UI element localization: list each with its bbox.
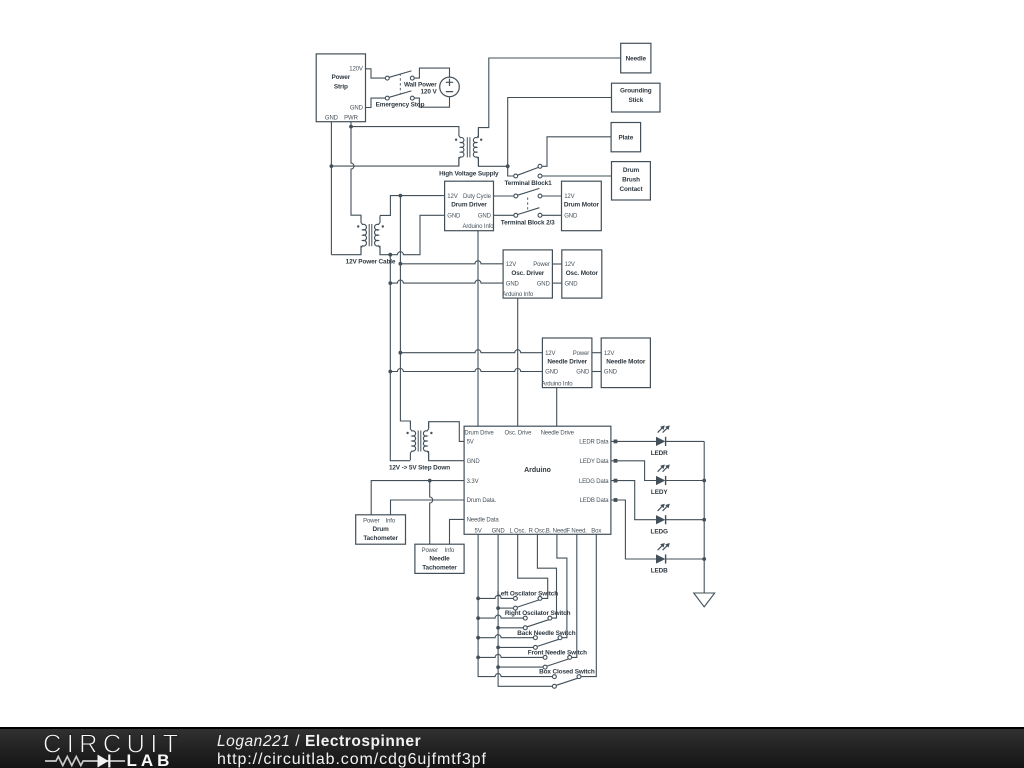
- ground symbol: [694, 593, 715, 607]
- wire 5V stub row2: [478, 615, 523, 618]
- wire TB1 throw1 to plate: [542, 137, 611, 167]
- wire LEDB cathode to bus: [666, 558, 705, 560]
- wire GND rail from power strip: [330, 122, 332, 255]
- svg-text:High Voltage Supply: High Voltage Supply: [439, 171, 499, 178]
- svg-text:Tachometer: Tachometer: [363, 535, 398, 542]
- wire needle driver info to arduino: [556, 388, 558, 427]
- needle motor M3: [601, 338, 650, 388]
- svg-text:GND: GND: [325, 116, 339, 122]
- junction PWR: [349, 125, 353, 129]
- svg-text:Needle Data: Needle Data: [467, 518, 500, 524]
- pin LEDY data: [614, 459, 618, 463]
- svg-text:GND: GND: [565, 281, 579, 287]
- LED D4 LEDB: [651, 543, 670, 575]
- drum motor labels: [564, 194, 600, 220]
- wire stepdown secondary top to 5V: [429, 422, 465, 442]
- arduino labels: [464, 431, 609, 535]
- osc driver U3: [503, 250, 552, 298]
- junction 3.3V: [428, 479, 432, 483]
- junction gnd row3: [496, 646, 500, 650]
- junction 5V row4: [476, 656, 480, 660]
- logo text LAB: [127, 751, 174, 768]
- label 12V -> 5V Step Down: [389, 465, 450, 472]
- svg-text:3.3V: 3.3V: [467, 479, 479, 485]
- circuitlab logo text CIRCUIT: [43, 731, 184, 759]
- wire GND pin to switch: [366, 98, 386, 107]
- label Drum Brush Contact: [620, 167, 644, 193]
- svg-text:12V: 12V: [506, 262, 516, 268]
- svg-text:Power: Power: [533, 262, 550, 268]
- wire HV primary bottom to GND: [331, 157, 459, 166]
- svg-text:12V: 12V: [564, 194, 574, 200]
- wire switch to source -: [414, 97, 449, 108]
- svg-text:LAB: LAB: [127, 751, 174, 768]
- wire LEDR cathode to bus: [666, 440, 705, 442]
- wire row5 to Box: [581, 534, 596, 676]
- svg-text:LEDY Data: LEDY Data: [580, 459, 610, 465]
- svg-text:Emergency Stop: Emergency Stop: [376, 102, 425, 109]
- svg-text:F Need.: F Need.: [566, 528, 587, 534]
- svg-text:Terminal Block1: Terminal Block1: [504, 180, 552, 187]
- wire TB to drum motor 12V: [542, 195, 561, 197]
- wire 120V pin to switch: [366, 69, 386, 78]
- url: [217, 751, 487, 768]
- wire osc power to motor: [552, 263, 561, 265]
- svg-text:GND: GND: [447, 214, 461, 220]
- wire LEDG data: [611, 481, 656, 520]
- wire cable primary bottom: [331, 246, 361, 255]
- svg-text:GND: GND: [506, 281, 520, 287]
- wire HV secondary to needle: [478, 58, 620, 138]
- terminal block1 switch SW2: [504, 164, 552, 186]
- wire drum driver duty cycle to TB: [494, 195, 514, 197]
- svg-text:Needle: Needle: [429, 555, 450, 562]
- switch SW6 Back Needle Switch: [517, 630, 575, 650]
- svg-text:Right Oscilator Switch: Right Oscilator Switch: [505, 610, 571, 617]
- LED D1 LEDR: [651, 425, 670, 457]
- svg-text:Info: Info: [445, 548, 455, 554]
- wire 5V stub row3: [478, 635, 533, 638]
- svg-text:GND: GND: [350, 106, 364, 112]
- junction 12V rail top: [399, 194, 403, 198]
- wire LEDG cathode to bus: [666, 519, 705, 521]
- wire needle tach power: [430, 481, 433, 545]
- svg-text:GND: GND: [537, 281, 551, 287]
- svg-text:GND: GND: [492, 528, 506, 534]
- wire needle power to motor: [592, 352, 601, 354]
- wire 12V to osc driver: [400, 261, 503, 264]
- drum tachometer labels: [363, 519, 398, 542]
- LED D3 LEDG: [651, 504, 670, 536]
- junction gnd row4: [496, 665, 500, 669]
- junction 5V row1: [476, 597, 480, 601]
- wire HV secondary bottom: [478, 157, 507, 166]
- wire led ground bus: [703, 441, 705, 593]
- wire drum data: [391, 500, 465, 515]
- wire PWR to HV primary: [351, 127, 459, 129]
- wire row2 to R Osc: [537, 534, 556, 618]
- svg-text:12V: 12V: [447, 194, 457, 200]
- needle tachometer labels: [422, 548, 458, 571]
- svg-text:LEDB: LEDB: [651, 568, 668, 575]
- needle driver labels: [542, 351, 590, 388]
- svg-text:GND: GND: [467, 459, 481, 465]
- wire to grounding stick: [508, 98, 612, 167]
- svg-text:Duty Cycle: Duty Cycle: [463, 194, 492, 200]
- label Needle: [626, 55, 647, 62]
- needle box: [621, 43, 651, 73]
- svg-text:Brush: Brush: [622, 177, 640, 184]
- svg-text:Left Oscilator Switch: Left Oscilator Switch: [497, 591, 558, 598]
- junction gnd rail top: [388, 253, 392, 257]
- wire gnd stub row4: [498, 666, 543, 668]
- svg-text:Drum Driver: Drum Driver: [451, 202, 487, 209]
- wire osc gnd to motor: [552, 282, 561, 284]
- plate box: [611, 123, 641, 152]
- logo resistor zigzag and diode: [45, 755, 125, 768]
- svg-text:GND: GND: [478, 214, 492, 220]
- svg-text:Osc. Motor: Osc. Motor: [566, 270, 599, 277]
- wire osc driver info to arduino: [517, 298, 519, 426]
- wire 5V stub row4: [478, 654, 543, 657]
- wire drum driver info to arduino: [477, 231, 479, 427]
- svg-text:Drum: Drum: [372, 526, 389, 533]
- svg-text:Stick: Stick: [628, 97, 643, 104]
- wire row3 to B Need: [557, 534, 567, 637]
- svg-text:Needle: Needle: [626, 55, 647, 62]
- svg-text:Arduino Info: Arduino Info: [463, 224, 495, 230]
- svg-text:LEDG: LEDG: [651, 528, 668, 535]
- svg-text:Power: Power: [422, 548, 439, 554]
- svg-text:Osc. Driver: Osc. Driver: [511, 270, 544, 277]
- wire row4 to F Need: [572, 534, 577, 657]
- svg-text:Arduino Info: Arduino Info: [542, 381, 574, 387]
- wire drum driver gnd to TB: [494, 214, 514, 216]
- junction bus LEDG: [702, 518, 706, 522]
- LED D2 LEDY: [651, 465, 670, 497]
- svg-text:Needle Driver: Needle Driver: [547, 358, 587, 365]
- wall power source V1: [404, 77, 459, 97]
- svg-text:Logan221 / Electrospinner: Logan221 / Electrospinner: [217, 733, 421, 750]
- wire 5V stub row1: [478, 595, 513, 598]
- svg-text:LEDY: LEDY: [651, 489, 668, 496]
- wire cable secondary top 12V net: [380, 196, 445, 216]
- wire 12V rail: [400, 196, 410, 424]
- svg-text:Drum Motor: Drum Motor: [564, 202, 600, 209]
- svg-text:Drum: Drum: [623, 167, 640, 174]
- svg-text:Arduino: Arduino: [524, 467, 551, 474]
- svg-text:GND: GND: [604, 370, 618, 376]
- svg-text:Box Closed Switch: Box Closed Switch: [539, 669, 595, 676]
- svg-text:Contact: Contact: [620, 186, 644, 193]
- svg-text:LEDR: LEDR: [651, 450, 668, 457]
- wire stepdown secondary bottom to gnd: [429, 451, 465, 461]
- junction 12V needle: [399, 351, 403, 355]
- drum driver U2: [445, 181, 494, 231]
- wire GND to osc driver: [390, 280, 503, 283]
- osc motor labels: [565, 262, 599, 287]
- drum driver labels: [447, 194, 494, 230]
- svg-text:Drum Drive: Drum Drive: [464, 431, 494, 437]
- svg-text:Drum Data.: Drum Data.: [467, 498, 497, 504]
- svg-text:http://circuitlab.com/cdg6ujfm: http://circuitlab.com/cdg6ujfmtf3pf: [217, 751, 487, 768]
- switch SW5 Right Oscilator Switch: [505, 610, 571, 630]
- power strip PS1: [316, 54, 365, 122]
- svg-text:PWR: PWR: [344, 116, 358, 122]
- svg-text:120V: 120V: [349, 67, 363, 73]
- drum brush contact box: [612, 162, 651, 200]
- emergency stop switch SW1: [376, 71, 425, 109]
- drum tachometer U5: [356, 515, 406, 544]
- wire GND rail: [390, 255, 410, 461]
- wire 5V rail to switches: [478, 534, 552, 676]
- osc motor M2: [562, 250, 602, 298]
- transformer T1 high voltage supply: [455, 129, 483, 166]
- svg-text:Terminal Block 2/3: Terminal Block 2/3: [501, 219, 555, 226]
- wire LEDR data: [611, 440, 656, 442]
- svg-text:Grounding: Grounding: [620, 88, 652, 95]
- wire GND to needle driver: [390, 369, 542, 372]
- wire cable secondary bottom gnd: [380, 215, 445, 254]
- svg-text:Power: Power: [573, 351, 590, 357]
- switch SW8 Box Closed Switch: [539, 669, 595, 689]
- switch SW4 Left Oscilator Switch: [497, 591, 558, 611]
- svg-text:Arduino Info: Arduino Info: [502, 292, 534, 298]
- junction bus LEDY: [702, 479, 706, 483]
- wire gnd stub row3: [498, 646, 533, 648]
- svg-text:LEDG Data: LEDG Data: [579, 479, 609, 485]
- needle driver U4: [542, 338, 592, 388]
- wire needle gnd to motor: [592, 371, 601, 373]
- svg-text:GND: GND: [576, 370, 590, 376]
- wire PWR rail from power strip: [351, 122, 361, 219]
- svg-text:Plate: Plate: [618, 134, 633, 141]
- svg-text:Power: Power: [363, 519, 380, 525]
- pin LEDR data: [614, 440, 618, 444]
- transformer T2 12V power cable: [357, 216, 384, 255]
- svg-text:Back Needle Switch: Back Needle Switch: [517, 630, 575, 637]
- wire LEDB data: [611, 500, 656, 559]
- needle motor labels: [604, 351, 646, 376]
- svg-text:L Osc.: L Osc.: [509, 528, 526, 534]
- pin LEDG data: [614, 479, 618, 483]
- svg-text:Tachometer: Tachometer: [422, 564, 457, 571]
- svg-text:12V Power Cable: 12V Power Cable: [346, 259, 396, 266]
- svg-text:120 V: 120 V: [420, 89, 437, 96]
- junction gnd row1: [496, 606, 500, 610]
- wire LEDY data: [611, 461, 656, 481]
- svg-text:12V: 12V: [545, 351, 555, 357]
- grounding stick box: [612, 83, 661, 112]
- osc driver labels: [502, 262, 550, 298]
- svg-text:B. Need.: B. Need.: [546, 528, 569, 534]
- switch SW7 Front Needle Switch: [528, 650, 587, 670]
- pin LEDB data: [614, 498, 618, 502]
- label Plate: [618, 134, 633, 141]
- junction gnd osc: [388, 281, 392, 285]
- label Grounding Stick: [620, 88, 652, 104]
- wire row1 to L Osc: [518, 534, 548, 598]
- needle tachometer U6: [415, 544, 464, 573]
- svg-text:12V -> 5V Step Down: 12V -> 5V Step Down: [389, 465, 450, 472]
- junction 5V row2: [476, 616, 480, 620]
- junction 5V row3: [476, 636, 480, 640]
- wire gnd stub row2: [498, 627, 523, 629]
- svg-text:Power: Power: [332, 74, 351, 81]
- svg-text:Box: Box: [591, 528, 601, 534]
- svg-text:Strip: Strip: [334, 83, 348, 90]
- svg-text:5V: 5V: [475, 528, 482, 534]
- svg-text:LEDR Data: LEDR Data: [579, 440, 609, 446]
- svg-text:Front Needle Switch: Front Needle Switch: [528, 650, 587, 657]
- wire gnd stub row1: [498, 607, 513, 609]
- arduino U1: [464, 426, 611, 534]
- svg-text:Needle Drive: Needle Drive: [541, 431, 575, 437]
- svg-text:R Osc.: R Osc.: [529, 528, 547, 534]
- wire 12V to needle driver: [400, 350, 542, 353]
- wire 3.3V to tachometers: [371, 481, 464, 515]
- wire to terminal block1 common: [508, 166, 514, 176]
- svg-text:GND: GND: [545, 370, 559, 376]
- svg-text:LEDB Data: LEDB Data: [580, 498, 610, 504]
- label High Voltage Supply: [439, 171, 499, 178]
- junction node HV out: [506, 164, 510, 168]
- svg-text:Needle Motor: Needle Motor: [606, 358, 646, 365]
- junction bus LEDB: [702, 557, 706, 561]
- wire TB to drum motor gnd: [542, 214, 561, 216]
- wire LEDY cathode to bus: [666, 480, 705, 482]
- drum motor M1: [562, 181, 602, 231]
- svg-text:Info: Info: [386, 519, 396, 525]
- svg-text:12V: 12V: [604, 351, 614, 357]
- wire switch to source +: [414, 68, 449, 78]
- wire switch gnd rail: [498, 534, 552, 686]
- junction gnd needle: [388, 370, 392, 374]
- wire TB1 throw2 to drum brush: [542, 175, 611, 177]
- transformer T3 step down: [406, 422, 432, 460]
- svg-text:Osc. Drive: Osc. Drive: [504, 431, 532, 437]
- svg-text:5V: 5V: [467, 440, 474, 446]
- label 12V Power Cable: [346, 259, 396, 266]
- svg-text:12V: 12V: [565, 262, 575, 268]
- junction GND: [330, 164, 334, 168]
- wire needle data: [450, 519, 465, 544]
- terminal block 2/3 switch SW3: [501, 188, 555, 226]
- junction 12V osc: [399, 262, 403, 266]
- svg-text:GND: GND: [564, 214, 578, 220]
- junction gnd row2: [496, 626, 500, 630]
- title Logan221 / Electrospinner: [217, 733, 421, 750]
- power strip labels: [325, 67, 364, 122]
